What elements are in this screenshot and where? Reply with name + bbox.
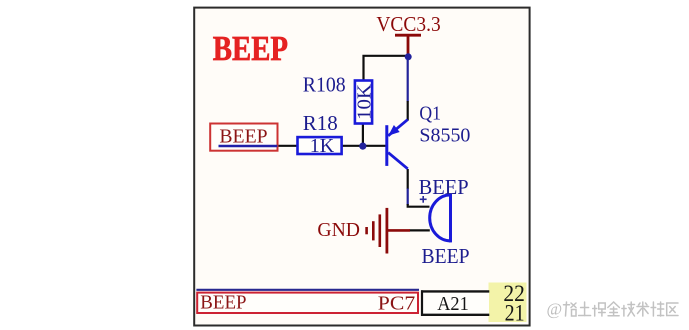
svg-text:10K: 10K (353, 83, 375, 120)
svg-text:BEEP: BEEP (200, 291, 246, 313)
svg-text:R18: R18 (303, 111, 338, 135)
svg-text:BEEP: BEEP (219, 126, 267, 148)
svg-text:BEEP: BEEP (419, 175, 469, 199)
svg-text:21: 21 (505, 301, 525, 326)
svg-text:Q1: Q1 (419, 103, 441, 125)
svg-text:BEEP: BEEP (422, 244, 470, 268)
svg-text:1K: 1K (310, 135, 335, 157)
svg-text:PC7: PC7 (378, 293, 415, 315)
svg-text:VCC3.3: VCC3.3 (376, 12, 440, 36)
svg-text:BEEP: BEEP (213, 29, 288, 68)
svg-text:R108: R108 (303, 72, 346, 96)
svg-text:GND: GND (317, 219, 360, 241)
svg-text:A21: A21 (437, 293, 469, 315)
svg-text:@: @ (547, 300, 563, 319)
svg-text:S8550: S8550 (419, 124, 470, 146)
